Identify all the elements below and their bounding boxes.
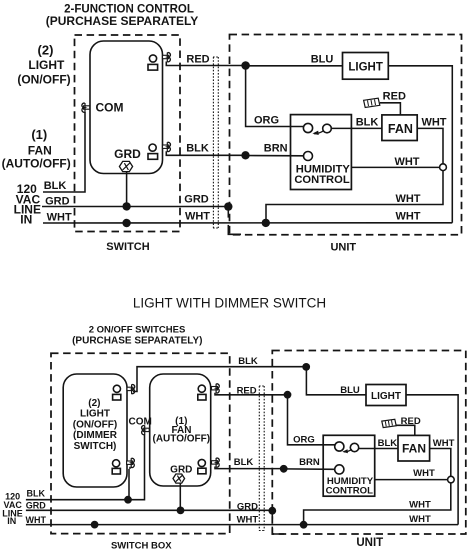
wire WHT from FAN to junction circle bbox=[417, 128, 443, 163]
box humidity control (lower) bbox=[323, 435, 375, 496]
switch S1 body bbox=[90, 41, 163, 174]
wire BLK line to COM bbox=[43, 112, 85, 192]
svg-text:COM: COM bbox=[129, 416, 152, 427]
ground screw hex GRD bbox=[119, 161, 132, 171]
svg-text:BLK: BLK bbox=[238, 356, 258, 367]
svg-text:CONTROL: CONTROL bbox=[326, 486, 374, 497]
svg-text:WHT: WHT bbox=[26, 515, 47, 525]
contact C2 bbox=[323, 124, 332, 133]
wire RED fan switch to junction bbox=[215, 393, 288, 395]
node J14 (GRD hex junction lower) bbox=[177, 507, 185, 515]
svg-text:WHT: WHT bbox=[413, 468, 435, 479]
contact C5 bbox=[350, 443, 358, 451]
svg-text:UNIT: UNIT bbox=[356, 537, 383, 549]
wire BLK fan switch to splice bbox=[215, 467, 284, 469]
screw COM bbox=[84, 106, 90, 109]
switch S3 fan body bbox=[150, 374, 211, 486]
terminal T2 circle+plate (switch bottom right) bbox=[149, 144, 156, 151]
svg-text:LIGHT: LIGHT bbox=[80, 409, 110, 420]
wire GRD bbox=[42, 206, 228, 208]
wire hex to GRD bbox=[126, 172, 128, 207]
wire BRN to humidity control bbox=[246, 155, 304, 157]
contact C4 bbox=[335, 442, 344, 451]
svg-text:(ON/OFF): (ON/OFF) bbox=[73, 419, 117, 430]
wire WHT middle return (lower) bbox=[304, 483, 451, 525]
terminal T5 fan bottom bbox=[198, 459, 205, 466]
box LIGHT bbox=[343, 53, 389, 80]
svg-text:ORG: ORG bbox=[293, 435, 315, 446]
wire RED from switch to junction bbox=[166, 62, 245, 66]
screw SC5 fan bottom (BLK) bbox=[212, 461, 218, 464]
svg-text:RED: RED bbox=[237, 385, 257, 396]
svg-text:BLK: BLK bbox=[378, 438, 398, 449]
node J2 (BLK/BRN splice) bbox=[241, 151, 249, 159]
wire hex to GRD (lower) bbox=[179, 483, 181, 510]
node J16 (BLK tap to dimmer) bbox=[124, 496, 132, 504]
node J11 wire-nut open circle (lower) bbox=[448, 476, 455, 483]
wire humidity to FAN (lower BLK) bbox=[359, 448, 398, 450]
screw SC3 dimmer top bbox=[127, 387, 133, 390]
terminal T4 fan top bbox=[198, 385, 205, 392]
node J15 (GRD at unit lower) bbox=[268, 507, 276, 515]
svg-text:WHT: WHT bbox=[409, 500, 431, 511]
svg-text:WHT: WHT bbox=[433, 438, 455, 449]
terminal T6 dimmer bottom bbox=[113, 460, 120, 467]
wire BLK dimmer to BLU corner bbox=[133, 367, 306, 392]
wire LIGHT return (right vertical) bbox=[388, 66, 452, 223]
switch blade arrow (lower) bbox=[344, 449, 352, 452]
unit box dashed enclosure (lower) bbox=[272, 351, 466, 535]
node J12 (WHT splice lower) bbox=[300, 521, 308, 529]
svg-text:(AUTO/OFF): (AUTO/OFF) bbox=[153, 434, 211, 445]
screw SC6 COM (lower) bbox=[143, 428, 149, 431]
screw SC2 (BLK terminal) bbox=[163, 145, 169, 148]
svg-text:IN: IN bbox=[7, 516, 16, 526]
svg-text:SWITCH): SWITCH) bbox=[74, 441, 117, 452]
node J10 (BLK/BRN splice lower) bbox=[280, 465, 288, 473]
svg-text:BLK: BLK bbox=[234, 457, 254, 468]
cable conduit dotted lines (lower) bbox=[259, 386, 265, 531]
node J5 (WHT dot in switch box) bbox=[122, 219, 130, 227]
svg-text:WHT: WHT bbox=[409, 514, 431, 525]
node J13 (WHT dot in switch box lower) bbox=[91, 521, 99, 529]
svg-text:2 ON/OFF SWITCHES: 2 ON/OFF SWITCHES bbox=[89, 325, 186, 336]
wire dimmer bottom to BLK bbox=[129, 467, 130, 500]
screw SC7 dimmer bottom bbox=[127, 461, 133, 464]
wire GRD (lower) bbox=[26, 509, 272, 511]
svg-text:(DIMMER: (DIMMER bbox=[73, 430, 118, 441]
node J9 (RED/ORG junction) bbox=[284, 391, 292, 399]
node J8 (BLU corner) bbox=[302, 363, 310, 371]
contact C1 bbox=[303, 123, 312, 132]
node J6 (GRD dot) bbox=[122, 202, 130, 210]
wire WHT bottom (neutral) bbox=[43, 222, 452, 224]
switch box dashed enclosure bbox=[75, 35, 181, 232]
screw SC1 (RED terminal) bbox=[163, 55, 169, 58]
svg-text:GRD: GRD bbox=[26, 501, 47, 511]
switch S2 dimmer body bbox=[63, 374, 127, 487]
terminal T3 dimmer top bbox=[113, 385, 120, 392]
box FAN (lower) bbox=[398, 435, 430, 461]
wire humidity to FAN (BLK) bbox=[331, 127, 382, 129]
screw SC4 fan top (RED) bbox=[212, 387, 218, 390]
wire LIGHT return (lower right vertical) bbox=[406, 395, 458, 525]
node J3 wire-nut open circle bbox=[440, 164, 447, 171]
wire ORG branch bbox=[246, 66, 304, 127]
box FAN bbox=[382, 115, 417, 141]
svg-text:RED: RED bbox=[401, 416, 421, 427]
svg-text:LIGHT WITH DIMMER SWITCH: LIGHT WITH DIMMER SWITCH bbox=[133, 296, 326, 311]
node J4 (WHT splice) bbox=[262, 219, 270, 227]
svg-text:FAN: FAN bbox=[402, 441, 426, 455]
switch box dashed enclosure (lower) bbox=[51, 353, 230, 533]
plug P1 (fan motor plug) bbox=[364, 98, 380, 107]
wire GRD down to unit chassis (lower, hops WHT) bbox=[272, 511, 284, 534]
svg-text:(PURCHASE SEPARATELY): (PURCHASE SEPARATELY) bbox=[72, 336, 202, 347]
plug P2 (fan motor plug lower) bbox=[382, 419, 396, 427]
svg-text:BLK: BLK bbox=[27, 488, 46, 498]
wire BRN to humidity (lower) bbox=[284, 468, 335, 470]
svg-text:GRD: GRD bbox=[237, 501, 258, 512]
wire WHT bottom (lower neutral) bbox=[26, 524, 458, 526]
terminal T1 circle+plate (switch top right) bbox=[149, 55, 156, 62]
svg-text:WHT: WHT bbox=[237, 514, 259, 525]
cable conduit dotted lines bbox=[213, 57, 219, 228]
contact C6 (BRN terminal lower) bbox=[335, 465, 344, 474]
svg-text:(2): (2) bbox=[88, 398, 100, 409]
svg-text:LIGHT: LIGHT bbox=[371, 391, 401, 402]
ground screw hex GRD (lower) bbox=[173, 474, 185, 483]
wire ORG branch (lower) bbox=[288, 395, 335, 445]
svg-text:BRN: BRN bbox=[299, 457, 320, 468]
wire WHT middle return bbox=[266, 171, 443, 223]
wire BLU to LIGHT bbox=[246, 65, 343, 67]
wire WHT humidity to junction circle bbox=[351, 166, 439, 168]
wire BLU to LIGHT bbox=[306, 367, 366, 395]
box humidity control bbox=[291, 115, 352, 190]
wire WHT fan to junction circle (lower) bbox=[430, 449, 451, 477]
wire BLK line to COM (lower) bbox=[26, 435, 145, 500]
svg-text:SWITCH BOX: SWITCH BOX bbox=[111, 540, 172, 550]
wire RED plug to FAN bbox=[380, 103, 401, 115]
node J1 (RED/BLU/ORG junction) bbox=[241, 61, 250, 70]
svg-text:BLU: BLU bbox=[340, 385, 360, 396]
node J7 (GRD at unit) bbox=[224, 202, 232, 210]
wire WHT humidity to junction circle (lower) bbox=[375, 479, 448, 481]
wire GRD down to unit chassis (hops WHT) bbox=[228, 207, 241, 235]
svg-text:GRD: GRD bbox=[170, 464, 192, 475]
unit box dashed enclosure bbox=[230, 35, 462, 235]
wire BLK from switch to junction bbox=[166, 151, 245, 155]
wire RED plug to FAN (lower) bbox=[396, 425, 414, 435]
switch blade arrow bbox=[314, 131, 324, 134]
box LIGHT (lower) bbox=[366, 385, 406, 406]
contact C3 (BRN terminal) bbox=[304, 152, 313, 161]
